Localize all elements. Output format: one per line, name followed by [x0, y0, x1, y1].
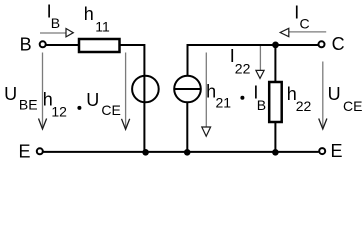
multiplication dot left: [77, 106, 81, 110]
svg-text:C: C: [300, 16, 310, 32]
arrow U_CE right (down, V head): [319, 62, 327, 130]
arrow h12·UCE (down, V head): [122, 53, 130, 130]
bottom rail E to E: [43, 151, 319, 153]
svg-text:CE: CE: [101, 102, 120, 118]
junction dot on bottom rail below current source: [184, 149, 191, 156]
arrow h21·IB (down, open triangle head): [202, 53, 211, 137]
wire top rail down to h22: [274, 45, 276, 82]
svg-text:21: 21: [216, 95, 232, 111]
svg-text:B: B: [20, 34, 32, 54]
arrow I_C (left): [280, 28, 326, 36]
resistor h11: [79, 39, 120, 52]
junction dot top rail at h22 branch: [272, 42, 279, 49]
current source h21·IB (circle with horizontal bar): [174, 76, 201, 103]
wire B to h11: [46, 44, 79, 46]
svg-text:h: h: [84, 4, 94, 24]
arrow U_BE (down, V head): [39, 53, 47, 130]
svg-text:E: E: [331, 141, 343, 161]
arrow I_22 (down, open triangle head): [256, 46, 264, 78]
junction dot on bottom rail below h22: [272, 149, 279, 156]
arrow I_B (right): [40, 29, 73, 37]
svg-text:B: B: [257, 97, 266, 113]
terminal E right: [319, 148, 325, 154]
resistor h22: [269, 82, 282, 122]
multiplication dot right: [240, 96, 244, 100]
wire h22 bottom to rail: [274, 122, 276, 151]
svg-text:BE: BE: [19, 96, 38, 112]
svg-text:U: U: [4, 84, 17, 104]
svg-text:U: U: [86, 90, 99, 110]
svg-text:22: 22: [235, 61, 251, 77]
svg-text:CE: CE: [343, 98, 362, 114]
svg-text:12: 12: [51, 103, 67, 119]
junction dot on bottom rail below voltage source: [142, 149, 149, 156]
svg-text:11: 11: [95, 18, 110, 34]
svg-text:22: 22: [296, 98, 312, 114]
wire h11 to corner and down to voltage source, through it, to bottom rail: [120, 45, 144, 151]
terminal C: [319, 41, 325, 47]
wire current source bottom to rail: [186, 102, 188, 151]
voltage source h12·UCE (circle, line through along axis): [132, 76, 159, 103]
current source bar: [174, 88, 201, 90]
svg-text:B: B: [51, 15, 60, 31]
terminal B: [40, 41, 46, 47]
svg-text:E: E: [19, 141, 31, 161]
svg-text:U: U: [328, 84, 341, 104]
wire top of current source up and right to C: [188, 45, 319, 76]
terminal E left: [37, 148, 43, 154]
svg-text:C: C: [332, 34, 345, 54]
